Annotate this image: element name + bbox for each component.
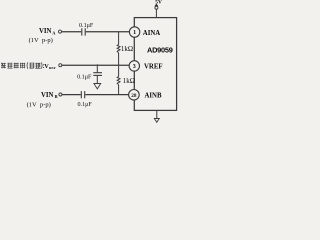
svg-text:5V: 5V	[155, 0, 162, 5]
svg-text:1kΩ: 1kΩ	[121, 45, 133, 53]
svg-text:28: 28	[131, 93, 137, 99]
svg-text:VIN: VIN	[41, 92, 54, 99]
svg-text:AD9059: AD9059	[147, 45, 173, 54]
svg-text:1kΩ: 1kΩ	[123, 77, 135, 85]
svg-text:(1V p-p): (1V p-p)	[29, 37, 53, 44]
svg-text:AINA: AINA	[143, 30, 160, 37]
svg-text:VREF: VREF	[144, 64, 163, 71]
svg-text:0.1μF: 0.1μF	[79, 23, 94, 29]
svg-text:(1V p-p): (1V p-p)	[27, 101, 51, 108]
svg-text:VIN: VIN	[39, 28, 52, 35]
svg-text:AINB: AINB	[145, 93, 162, 100]
svg-text:3: 3	[133, 64, 136, 70]
svg-text:1: 1	[133, 30, 136, 36]
svg-text:B: B	[55, 94, 58, 99]
svg-text:0.1μF: 0.1μF	[77, 75, 92, 81]
svg-text:REF: REF	[49, 66, 56, 70]
svg-text:0.1μF: 0.1μF	[78, 102, 93, 108]
